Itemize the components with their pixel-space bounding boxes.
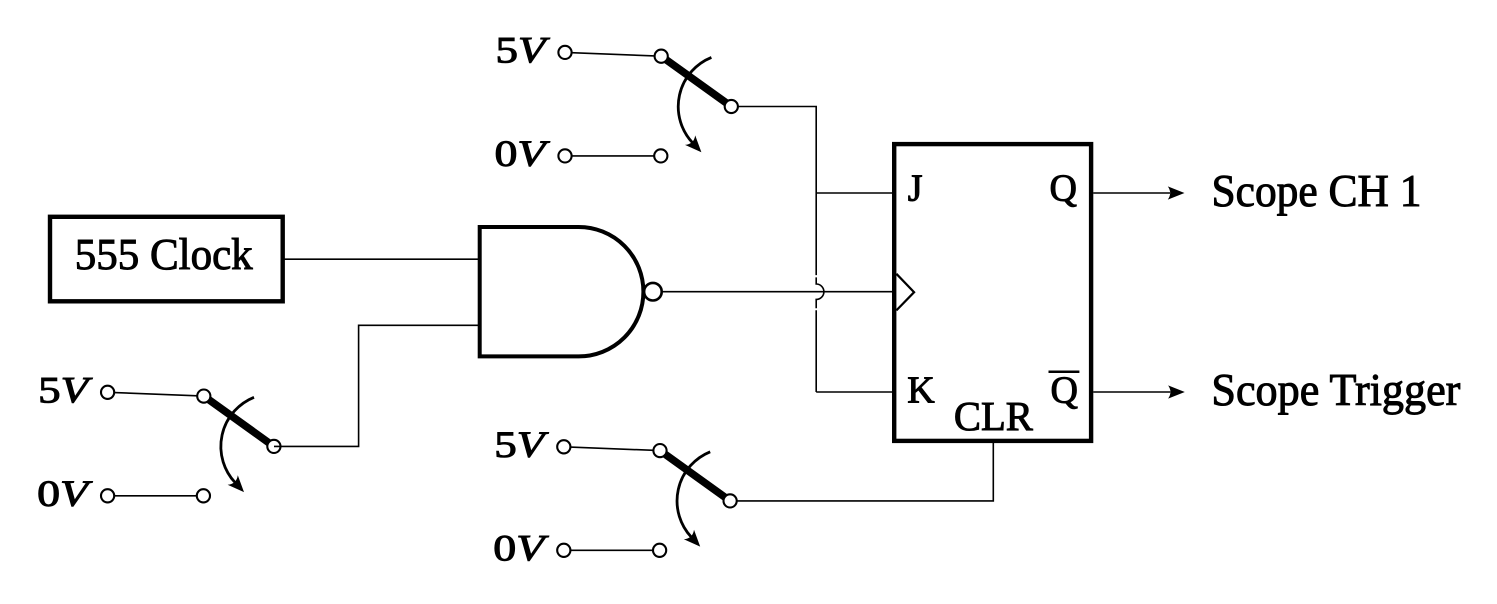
JK flip-flop U2 box <box>894 144 1091 441</box>
wire: SW3 common to CLR pin (right then up) <box>737 443 994 501</box>
switch SW2: pole wire 5V terminal to throw contact <box>108 392 204 396</box>
svg-text:Scope Trigger: Scope Trigger <box>1211 364 1460 415</box>
wire: CLR pin stub <box>992 443 994 501</box>
wire: tie to K input <box>816 391 894 393</box>
switch SW1: pole wire 5V terminal to throw contact <box>565 52 661 56</box>
svg-text:Q: Q <box>1050 168 1077 210</box>
switch SW3: 0V terminal circle <box>557 544 570 557</box>
switch SW3: pole wire 5V terminal to throw contact <box>564 447 660 451</box>
wire: tie to J input <box>816 192 894 194</box>
NAND gate U1 body <box>480 227 644 356</box>
switch SW1: common output circle <box>725 100 738 113</box>
switch SW2: throw contact circle <box>197 390 210 403</box>
switch SW2: 5V terminal circle <box>101 386 114 399</box>
svg-text:0V: 0V <box>495 134 551 175</box>
wire: Q-bar output with arrowhead <box>1093 385 1185 398</box>
svg-text:K: K <box>907 370 935 412</box>
svg-text:Scope CH 1: Scope CH 1 <box>1212 165 1422 216</box>
switch SW3: toggle arc arrow <box>677 452 710 547</box>
wire: Q output with arrowhead <box>1093 186 1184 199</box>
svg-text:555 Clock: 555 Clock <box>75 230 253 279</box>
wire: NAND output to flip-flop clock input <box>662 291 894 293</box>
svg-text:J: J <box>908 168 923 210</box>
switch SW2: 0V open contact circle <box>197 489 210 502</box>
switch SW1: lever arm <box>661 56 731 106</box>
switch SW3: throw contact circle <box>653 444 666 457</box>
NAND gate U1 output inversion bubble <box>644 283 662 301</box>
switch SW2: 0V row wire <box>108 495 204 497</box>
switch SW3: 0V open contact circle <box>653 544 666 557</box>
switch SW1: toggle arc arrow <box>678 57 711 152</box>
switch SW1: throw contact circle <box>655 50 668 63</box>
wire: SW1 common to J/K tie vertical (with hop over clock wire) <box>738 107 824 393</box>
flip-flop clock edge triangle <box>896 274 914 311</box>
svg-text:0V: 0V <box>493 528 549 569</box>
wire: SW2 common to NAND input B (right, up, right) <box>274 325 479 446</box>
pin label Q-bar <box>1049 370 1080 412</box>
switch SW3: lever arm <box>660 451 730 501</box>
switch SW3: 0V row wire <box>564 549 660 551</box>
switch SW2: common output circle <box>267 440 280 453</box>
switch SW1: 0V open contact circle <box>654 149 667 162</box>
svg-text:Q: Q <box>1051 370 1078 412</box>
switch SW3: common output circle <box>724 494 737 507</box>
switch SW2: toggle arc arrow <box>221 397 254 492</box>
switch SW1: 0V terminal circle <box>558 149 571 162</box>
555 Clock block box <box>50 217 283 301</box>
svg-text:5V: 5V <box>38 370 93 411</box>
svg-text:5V: 5V <box>496 30 551 71</box>
wire: clock box output to NAND input A <box>283 258 479 260</box>
switch SW1: 0V row wire <box>565 155 661 157</box>
svg-text:0V: 0V <box>37 474 93 515</box>
svg-text:5V: 5V <box>494 425 549 466</box>
switch SW2: lever arm <box>204 396 274 446</box>
switch SW2: 0V terminal circle <box>101 489 114 502</box>
svg-text:CLR: CLR <box>954 393 1034 439</box>
switch SW1: 5V terminal circle <box>558 46 571 59</box>
switch SW3: 5V terminal circle <box>557 440 570 453</box>
